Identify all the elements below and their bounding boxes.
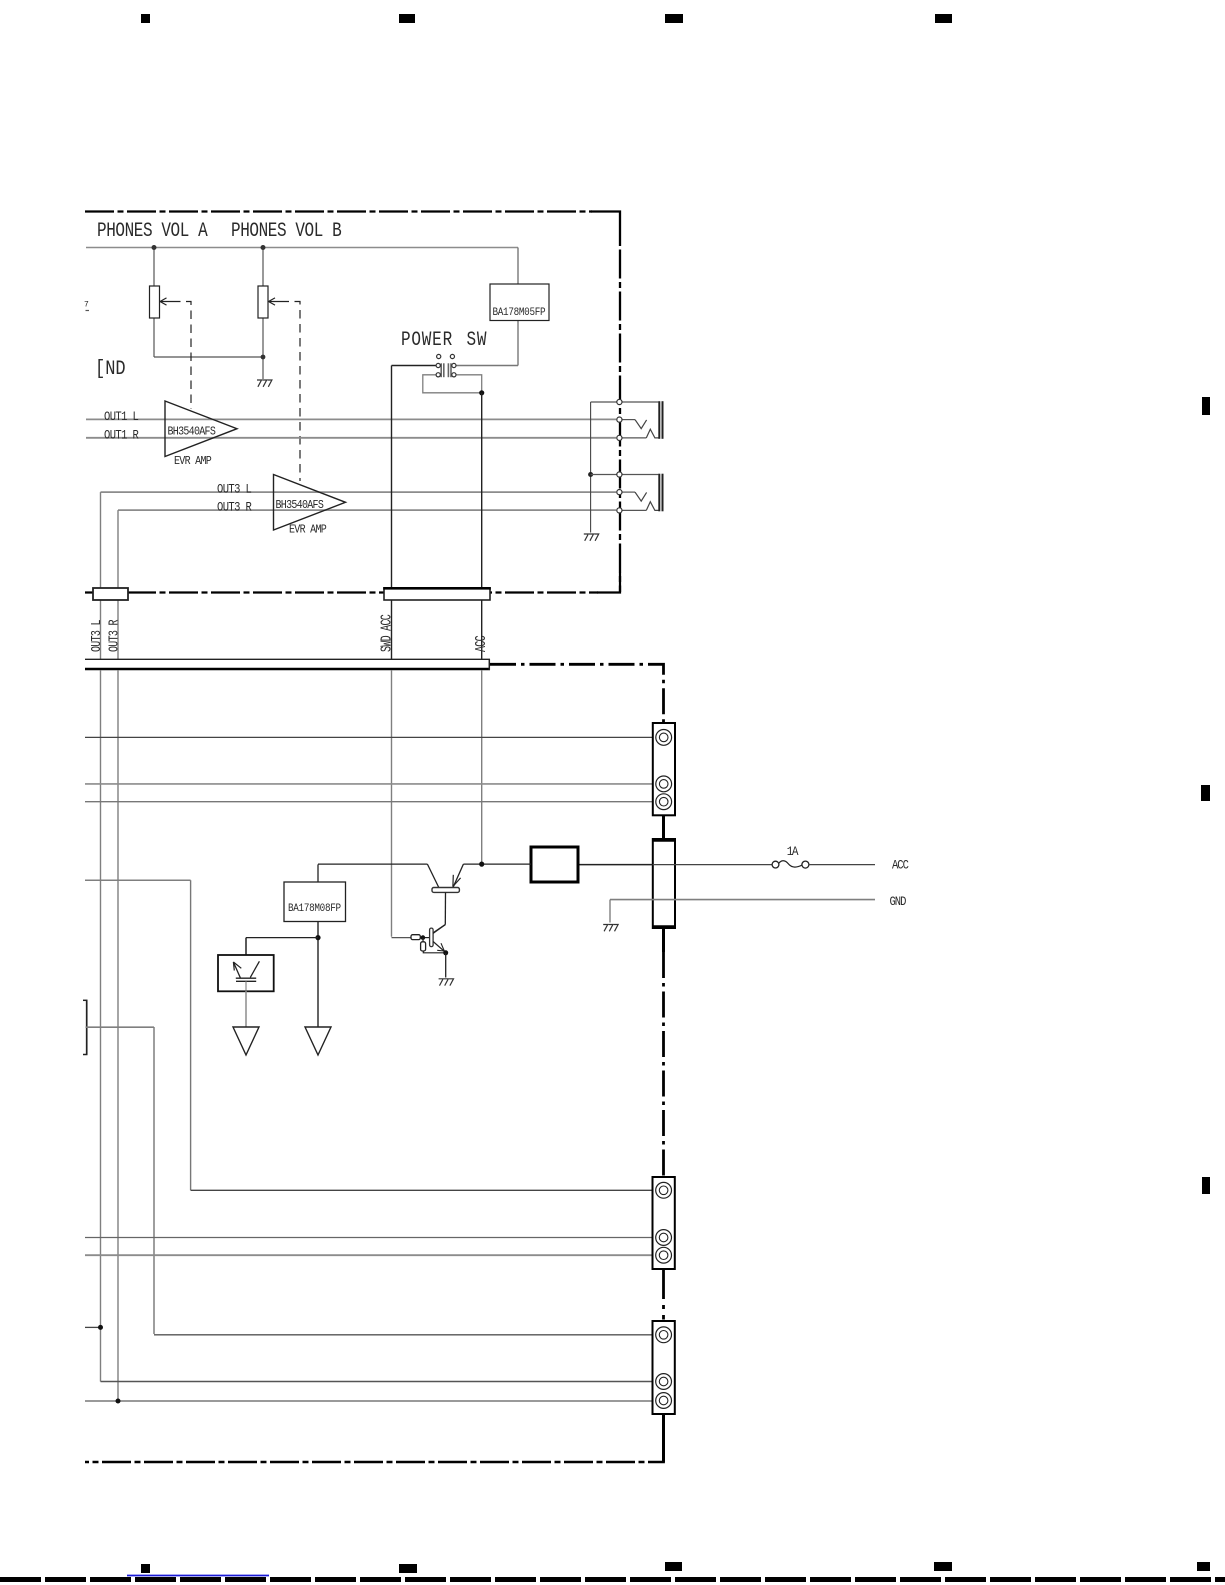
svg-text:BA178M05FP: BA178M05FP: [493, 306, 546, 319]
svg-text:POWER: POWER: [401, 328, 453, 351]
svg-text:OUT3 R: OUT3 R: [217, 501, 252, 515]
svg-text:BH3540AFS: BH3540AFS: [276, 499, 325, 512]
svg-text:SWD ACC: SWD ACC: [379, 615, 395, 652]
svg-text:SW: SW: [467, 328, 488, 351]
svg-text:ACC: ACC: [473, 636, 489, 652]
svg-text:1A: 1A: [787, 844, 799, 859]
svg-text:PHONES VOL A: PHONES VOL A: [97, 219, 209, 242]
svg-text:ACC: ACC: [892, 857, 909, 872]
svg-text:[ND: [ND: [95, 357, 126, 381]
svg-text:BA178M08FP: BA178M08FP: [288, 902, 341, 915]
svg-text:OUT3 R: OUT3 R: [106, 620, 122, 652]
svg-text:OUT3 L: OUT3 L: [89, 620, 105, 652]
svg-text:7: 7: [84, 301, 89, 310]
svg-text:EVR AMP: EVR AMP: [174, 455, 212, 468]
svg-text:GND: GND: [890, 894, 907, 909]
svg-text:EVR AMP: EVR AMP: [289, 524, 327, 537]
svg-text:OUT1 L: OUT1 L: [104, 410, 139, 424]
svg-text:BH3540AFS: BH3540AFS: [168, 426, 217, 439]
svg-text:OUT1 R: OUT1 R: [104, 429, 139, 443]
svg-text:OUT3 L: OUT3 L: [217, 483, 252, 497]
svg-text:PHONES VOL B: PHONES VOL B: [231, 219, 342, 242]
